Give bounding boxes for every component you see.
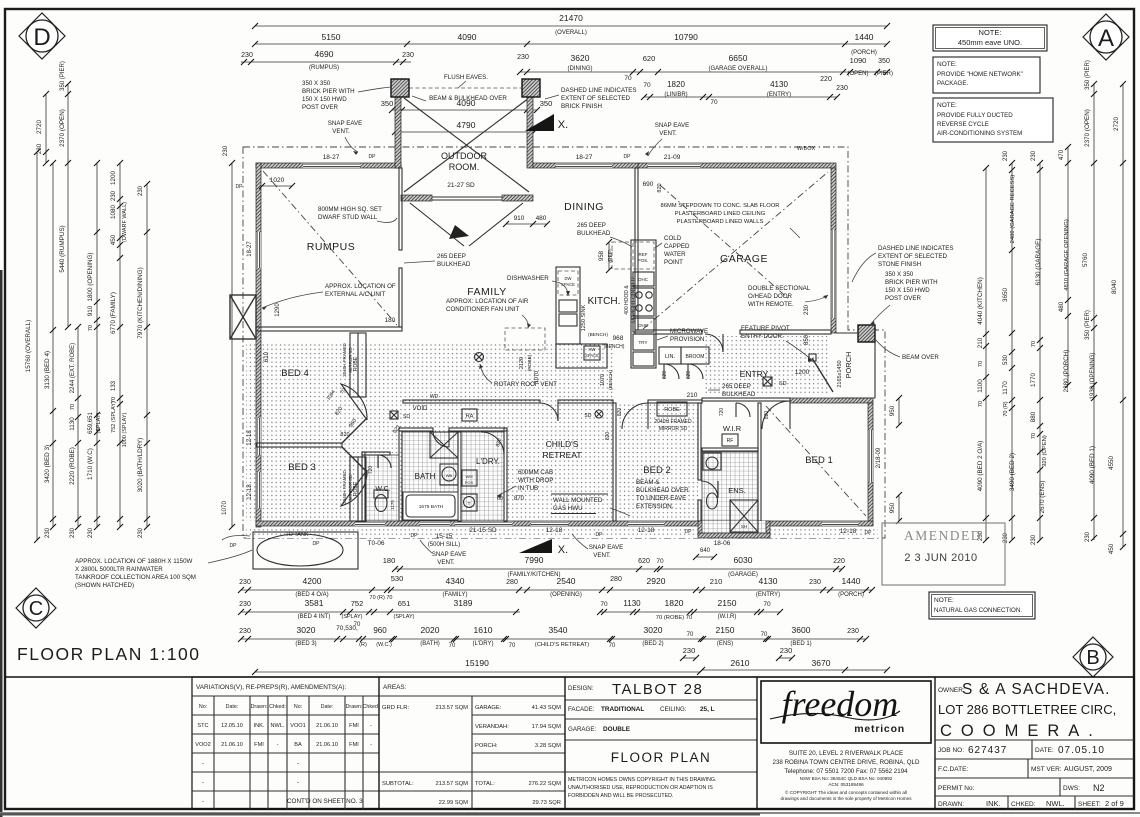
garage personal door to entry [705, 334, 723, 352]
svg-text:70: 70 [978, 401, 984, 407]
kitchen sink [559, 300, 577, 312]
svg-text:70: 70 [609, 643, 616, 649]
svg-text:2 3 JUN 2010: 2 3 JUN 2010 [904, 552, 977, 564]
svg-text:70 (ROBE) 70: 70 (ROBE) 70 [656, 615, 692, 621]
svg-text:870: 870 [514, 496, 525, 502]
svg-text:2280 (PORCH): 2280 (PORCH) [1063, 350, 1070, 393]
svg-text:DP: DP [230, 543, 238, 549]
carpet stipple bedrooms/family band [246, 344, 613, 521]
svg-text:(REF): (REF) [608, 249, 614, 263]
svg-text:620: 620 [643, 54, 656, 63]
svg-text:4040 (KITCHEN): 4040 (KITCHEN) [977, 277, 984, 325]
svg-text:FMI: FMI [349, 723, 359, 729]
svg-text:FEATURE PIVOT: FEATURE PIVOT [741, 325, 790, 332]
right dim col 4040 (KITCHEN) etc [985, 168, 987, 540]
svg-text:4090 (BED 2 O/A): 4090 (BED 2 O/A) [977, 441, 984, 492]
svg-text:(BED 4 INT): (BED 4 INT) [298, 614, 331, 620]
svg-text:SH: SH [741, 524, 747, 529]
svg-text:1200: 1200 [795, 369, 810, 376]
svg-text:910: 910 [514, 215, 525, 222]
svg-text:21.06.10: 21.06.10 [221, 742, 243, 748]
svg-text:LOT 286 BOTTLETREE CIRC,: LOT 286 BOTTLETREE CIRC, [938, 702, 1116, 717]
svg-text:PLASTERBOARD LINED CEILING: PLASTERBOARD LINED CEILING [675, 211, 766, 217]
section marker X bottom [519, 539, 552, 553]
svg-text:VENT.: VENT. [332, 128, 350, 135]
bed2 door [622, 403, 648, 429]
svg-text:ACN: 053189496: ACN: 053189496 [828, 782, 864, 787]
window 18-27 rumpus north [303, 163, 360, 168]
ens/bed1 divider [758, 403, 761, 521]
svg-text:SD: SD [779, 381, 787, 387]
svg-text:VARIATIONS(V), RE-PREPS(R), AM: VARIATIONS(V), RE-PREPS(R), AMENDMENTS(A… [196, 684, 347, 691]
west wall [256, 163, 261, 527]
kitchen bench [556, 267, 580, 344]
svg-text:3581: 3581 [305, 598, 324, 608]
svg-text:SUBTOTAL:: SUBTOTAL: [382, 781, 414, 787]
svg-text:950: 950 [889, 502, 896, 513]
svg-text:UNAUTHORISED USE, REPRODUCTION: UNAUTHORISED USE, REPRODUCTION OR ADAPTI… [568, 785, 713, 791]
svg-text:DP: DP [685, 529, 693, 535]
childs retreat door [540, 403, 558, 421]
svg-text:CONDITIONER FAN UNIT: CONDITIONER FAN UNIT [446, 306, 519, 313]
svg-text:1130: 1130 [623, 599, 641, 608]
svg-text:3.28 SQM: 3.28 SQM [535, 743, 561, 749]
svg-text:70: 70 [1031, 341, 1037, 347]
bath door [433, 431, 449, 447]
svg-text:2150: 2150 [716, 625, 735, 635]
svg-text:W/BOX: W/BOX [797, 146, 816, 152]
outdoor room stacker door 21-27 SD [432, 196, 502, 198]
wir door [736, 403, 750, 417]
svg-text:968: 968 [613, 335, 624, 342]
svg-text:350 (PIER): 350 (PIER) [1085, 60, 1091, 90]
svg-text:(GARAGE): (GARAGE) [728, 572, 758, 578]
svg-text:(DINING): (DINING) [568, 66, 593, 72]
svg-text:41.43 SQM: 41.43 SQM [532, 705, 561, 711]
svg-text:5D: 5D [584, 413, 591, 419]
svg-text:Date:: Date: [321, 704, 334, 710]
svg-text:POS.: POS. [638, 258, 649, 263]
svg-text:15760 (OVERALL): 15760 (OVERALL) [25, 320, 32, 373]
svg-text:(W.C.): (W.C.) [376, 642, 392, 648]
svg-text:RETREAT: RETREAT [542, 450, 581, 460]
window 10-06 bed3 south [355, 521, 385, 526]
top dimension row 2: 5150 / 4090 / 10790 / 1440 [255, 43, 887, 45]
svg-text:2480 (GARAGE RECESS): 2480 (GARAGE RECESS) [1010, 175, 1016, 244]
svg-text:2120: 2120 [519, 357, 525, 369]
right dim col 2720 8040 4550 450 [1122, 84, 1124, 547]
svg-text:REVERSE CYCLE: REVERSE CYCLE [937, 121, 989, 128]
svg-text:BED 4: BED 4 [281, 368, 308, 379]
svg-text:AIR-CONDITIONING SYSTEM: AIR-CONDITIONING SYSTEM [937, 130, 1022, 137]
bed2/ens divider [698, 403, 701, 480]
north wall garage [638, 163, 836, 168]
svg-text:DP: DP [369, 154, 377, 160]
bottom right dims 230 2610 230 3670 [683, 657, 696, 659]
svg-text:18-27: 18-27 [323, 154, 340, 161]
svg-text:GARAGE:: GARAGE: [475, 705, 502, 711]
svg-text:DWARF STUD WALL: DWARF STUD WALL [318, 214, 378, 221]
garage diagonal [643, 172, 828, 329]
svg-text:AUGUST, 2009: AUGUST, 2009 [1064, 766, 1112, 773]
svg-text:TANKROOF COLLECTION AREA 100 S: TANKROOF COLLECTION AREA 100 SQM [75, 574, 196, 581]
eave outline dashed [243, 147, 885, 538]
svg-text:DWS:: DWS: [1063, 785, 1080, 792]
svg-text:12-18: 12-18 [247, 484, 253, 500]
svg-text:820: 820 [605, 432, 611, 441]
svg-text:WALL MOUNTED: WALL MOUNTED [553, 497, 603, 504]
svg-text:X.: X. [558, 119, 568, 131]
corner marker D [19, 13, 65, 59]
svg-text:ROOM.: ROOM. [449, 162, 480, 172]
svg-text:SPACE: SPACE [585, 353, 599, 358]
svg-text:1675 BATH: 1675 BATH [419, 504, 444, 510]
svg-text:230: 230 [45, 527, 51, 538]
svg-text:FAMILY: FAMILY [467, 286, 507, 298]
brick pier NE [522, 79, 540, 97]
svg-text:(LIN/BR): (LIN/BR) [664, 92, 687, 98]
svg-text:3670: 3670 [812, 658, 831, 668]
svg-text:1170: 1170 [1002, 381, 1009, 395]
outdoor room dim 4790 [395, 131, 534, 133]
svg-text:2610: 2610 [731, 658, 750, 668]
svg-text:T: T [468, 501, 471, 506]
svg-text:70: 70 [600, 601, 608, 608]
ens door [701, 481, 718, 498]
outdoor room east wall [527, 96, 533, 168]
svg-text:70 (R) 70: 70 (R) 70 [370, 595, 393, 601]
brick pier NW [391, 79, 409, 97]
note box air conditioning [933, 98, 1053, 142]
svg-text:350: 350 [878, 58, 890, 65]
svg-text:21.06.10: 21.06.10 [316, 742, 338, 748]
svg-text:213.57 SQM: 213.57 SQM [435, 781, 468, 787]
svg-text:1930 (OPENING): 1930 (OPENING) [1090, 353, 1096, 400]
svg-text:620: 620 [638, 558, 650, 565]
left dim col 230 / 1070 near wall [231, 163, 233, 527]
svg-text:SNAP EAVE: SNAP EAVE [432, 551, 467, 558]
outdoor room west wall [395, 96, 401, 168]
svg-text:238 ROBINA TOWN CENTRE DRIVE,: 238 ROBINA TOWN CENTRE DRIVE, ROBINA, QL… [773, 759, 920, 766]
svg-text:VOO2: VOO2 [195, 742, 211, 748]
bed2 robe [657, 402, 687, 416]
svg-text:752 (SPLAY): 752 (SPLAY) [111, 401, 117, 433]
top dimension row 3 left: 230 4690 (RUMPUS) 230 [241, 61, 411, 63]
svg-text:POS: POS [465, 480, 474, 485]
svg-text:X.: X. [558, 544, 568, 556]
svg-text:1070: 1070 [221, 501, 228, 516]
svg-text:1175: 1175 [390, 500, 395, 510]
svg-text:850: 850 [804, 334, 810, 345]
svg-text:BROOM: BROOM [686, 354, 705, 360]
svg-text:(RUMPUS): (RUMPUS) [309, 65, 339, 71]
garage west wall [635, 168, 638, 330]
svg-text:15-15: 15-15 [436, 533, 453, 540]
svg-text:ROTARY ROOF VENT: ROTARY ROOF VENT [494, 381, 557, 388]
svg-text:530: 530 [1003, 354, 1009, 365]
svg-text:BA: BA [294, 742, 302, 748]
svg-text:1070: 1070 [600, 374, 606, 386]
svg-text:800MM HIGH SQ. SET: 800MM HIGH SQ. SET [318, 206, 382, 213]
rainwater tank [253, 532, 358, 569]
svg-text:230: 230 [241, 52, 253, 59]
svg-text:1440: 1440 [855, 32, 874, 42]
svg-text:470: 470 [1058, 149, 1065, 160]
svg-text:4810 (GARAGE OPENING): 4810 (GARAGE OPENING) [1064, 219, 1070, 291]
svg-text:4550: 4550 [1108, 456, 1115, 471]
svg-text:WB: WB [446, 473, 453, 478]
svg-text:958: 958 [599, 250, 605, 261]
svg-text:265 DEEP: 265 DEEP [577, 222, 606, 229]
svg-text:NWL.: NWL. [1046, 799, 1065, 808]
porch outline [836, 332, 858, 334]
svg-text:820: 820 [617, 408, 623, 417]
svg-text:3600: 3600 [792, 625, 811, 635]
svg-text:280: 280 [610, 576, 622, 583]
svg-text:70: 70 [978, 361, 984, 367]
svg-text:70: 70 [1031, 433, 1037, 439]
svg-text:70: 70 [763, 601, 771, 608]
corner marker B [1073, 637, 1113, 677]
svg-text:DOUBLE: DOUBLE [603, 726, 631, 733]
rotary roof vent symbol [475, 353, 484, 362]
ldry door [481, 432, 504, 455]
dwarf stud wall rumpus/family [399, 168, 402, 250]
svg-text:PLASTERBOARD LINED WALLS: PLASTERBOARD LINED WALLS [677, 219, 764, 225]
bottom dim row 230 3581 752 651 3189 / 70 1130 1820 2150 70 [241, 611, 520, 613]
childs/bed2 divider [613, 403, 616, 521]
bed4/bed3 divider with splay [256, 443, 342, 447]
svg-text:DP: DP [236, 184, 244, 190]
svg-text:L'DRY.: L'DRY. [476, 457, 500, 466]
svg-text:BULKHEAD: BULKHEAD [437, 261, 471, 268]
svg-text:DISHWASHER: DISHWASHER [507, 275, 549, 282]
svg-text:B: B [1086, 647, 1099, 669]
svg-text:ROBE: ROBE [353, 356, 359, 371]
svg-text:POINT: POINT [664, 259, 683, 266]
right dim col 230 6130 70 1770 880 920 2670 [1039, 163, 1041, 540]
svg-text:(OPENING): (OPENING) [550, 592, 582, 598]
svg-text:480: 480 [1058, 301, 1065, 312]
svg-text:(GARAGE OVERALL): (GARAGE OVERALL) [708, 66, 767, 72]
svg-text:820: 820 [340, 432, 349, 438]
svg-text:COLD: COLD [664, 235, 682, 242]
rumpus diagonal [263, 171, 397, 325]
svg-text:MIRROR SD: MIRROR SD [659, 426, 688, 432]
wir shelf RF [722, 434, 738, 446]
svg-text:21-09: 21-09 [664, 154, 681, 161]
svg-text:752: 752 [351, 599, 364, 608]
svg-text:1080: 1080 [110, 205, 117, 220]
svg-text:BULKHEAD OVER: BULKHEAD OVER [636, 487, 689, 494]
svg-text:STONE FINISH: STONE FINISH [878, 261, 921, 268]
corner marker A [1083, 14, 1129, 60]
svg-text:NSW BSA No: 38454C QLD BSA: NSW BSA No: 38454C QLD BSA No: 040992 [800, 776, 893, 781]
svg-text:70: 70 [449, 643, 456, 649]
entry north walls [635, 330, 702, 334]
svg-text:230: 230 [138, 527, 144, 538]
window 12-18 bed1 south [822, 521, 858, 526]
svg-text:220: 220 [833, 558, 845, 565]
svg-text:TO UNDER-EAVE: TO UNDER-EAVE [636, 495, 686, 502]
svg-text:(SHOWN HATCHED): (SHOWN HATCHED) [75, 582, 134, 589]
top dimension row: 21470 overall [255, 25, 887, 27]
svg-text:PORCH: PORCH [844, 351, 853, 378]
svg-text:1800 (OPENING): 1800 (OPENING) [87, 253, 94, 302]
svg-text:1000 (SPLAY): 1000 (SPLAY) [122, 412, 128, 447]
svg-text:5760: 5760 [1082, 253, 1089, 268]
bottom dim row 180 7990 (FAMILY/KITCHEN) 620 70 6030 (GARAGE) 220 [395, 568, 842, 570]
svg-text:600MM CAB: 600MM CAB [518, 469, 553, 476]
svg-text:DOUBLE SECTIONAL: DOUBLE SECTIONAL [748, 285, 811, 292]
svg-text:8040: 8040 [1111, 280, 1118, 295]
svg-text:ENTRY: ENTRY [740, 369, 769, 379]
svg-text:APPROX: LOCATION OF AIR: APPROX: LOCATION OF AIR [446, 298, 529, 305]
svg-text:350: 350 [381, 99, 394, 108]
svg-text:18-27: 18-27 [247, 241, 253, 257]
svg-text:230: 230 [1085, 531, 1091, 542]
svg-text:6030: 6030 [734, 555, 753, 565]
ldry east wall [504, 428, 507, 521]
svg-text:(L'DRY): (L'DRY) [472, 641, 493, 647]
svg-text:230: 230 [836, 85, 848, 92]
svg-text:FLOOR PLAN: FLOOR PLAN [611, 750, 712, 765]
flush eave line outdoor room [396, 87, 536, 89]
svg-text:DP: DP [596, 532, 604, 538]
svg-text:(BED 2): (BED 2) [642, 641, 663, 647]
svg-text:880: 880 [1030, 411, 1037, 422]
north wall dining [533, 163, 638, 168]
svg-text:4090 (BED 1): 4090 (BED 1) [1089, 446, 1096, 484]
svg-text:70: 70 [70, 404, 76, 410]
svg-text:(CHILD'S RETREAT): (CHILD'S RETREAT) [535, 642, 590, 648]
svg-text:WD: WD [430, 394, 439, 400]
svg-text:EXTENSION.: EXTENSION. [636, 503, 674, 510]
note box home network [933, 57, 1040, 93]
svg-text:400 HOOD &: 400 HOOD & [624, 285, 630, 315]
svg-text:210: 210 [977, 337, 984, 348]
svg-text:O/HEAD DOOR: O/HEAD DOOR [748, 293, 793, 300]
left dim col 230 7970 3020 [146, 184, 148, 527]
svg-text:2920: 2920 [647, 576, 666, 586]
svg-text:230: 230 [683, 646, 696, 655]
svg-text:VENT.: VENT. [437, 559, 455, 566]
svg-text:DP: DP [624, 154, 632, 160]
svg-text:620: 620 [686, 371, 692, 380]
svg-text:BED 1: BED 1 [805, 455, 832, 466]
svg-text:DRAWN:: DRAWN: [938, 801, 964, 808]
svg-text:950: 950 [889, 405, 896, 416]
bedroom band wall y=400 [403, 400, 540, 403]
svg-text:21-27 SD: 21-27 SD [447, 182, 475, 189]
svg-text:DATE:: DATE: [1035, 747, 1054, 754]
svg-text:DW: DW [565, 276, 572, 281]
svg-text:(PIER): (PIER) [875, 71, 893, 77]
svg-text:230: 230 [809, 579, 821, 586]
svg-text:213.57 SQM: 213.57 SQM [435, 705, 468, 711]
svg-text:12-18: 12-18 [546, 527, 563, 534]
svg-text:-: - [202, 799, 204, 805]
dim 910 480 dining [506, 223, 547, 225]
svg-text:480: 480 [536, 215, 547, 222]
svg-text:2220 (ROBE): 2220 (ROBE) [69, 447, 76, 485]
south wall [256, 521, 873, 526]
svg-text:WATER: WATER [664, 251, 686, 258]
svg-text:IN TUB: IN TUB [518, 485, 538, 492]
svg-text:230: 230 [239, 601, 251, 608]
svg-text:SUITE 20, LEVEL 2 RIVERWALK PL: SUITE 20, LEVEL 2 RIVERWALK PLACE [789, 750, 903, 757]
sliding door 21-15 SD south [455, 521, 512, 526]
svg-text:GRD FLR:: GRD FLR: [382, 705, 409, 711]
svg-text:SPACE: SPACE [561, 282, 575, 287]
svg-text:2/18-09: 2/18-09 [876, 447, 882, 468]
svg-text:(PORCH): (PORCH) [838, 592, 864, 598]
svg-text:SNAP EAVE: SNAP EAVE [589, 544, 624, 551]
svg-text:(DWARF WALL): (DWARF WALL) [122, 202, 128, 242]
carpet stipple bed2 [617, 404, 698, 521]
svg-text:PROVIDE FULLY DUCTED: PROVIDE FULLY DUCTED [937, 112, 1013, 119]
svg-text:AREAS:: AREAS: [383, 684, 407, 691]
svg-text:BRICK PIER WITH: BRICK PIER WITH [885, 279, 938, 286]
svg-text:VENT.: VENT. [659, 130, 677, 137]
svg-text:230: 230 [1003, 150, 1009, 161]
tiled ensuite [702, 452, 758, 521]
svg-text:NOTE:: NOTE: [979, 28, 1002, 37]
laundry tub and wm [462, 470, 477, 486]
svg-text:BRICK PIER WITH: BRICK PIER WITH [302, 88, 355, 95]
window 18-27 rumpus west [256, 232, 261, 268]
bottom dim row 230 3020 70 530 960 2020 1610 3540 3020 2150 3600 230 [241, 638, 866, 640]
svg-text:DP: DP [865, 530, 873, 536]
owner section [935, 677, 1134, 809]
bottom dim row 230 4200 530 4340 280 2540 280 2920 210 4130 230 1440 [241, 589, 872, 591]
svg-text:820: 820 [657, 183, 663, 192]
wir/ens divider [702, 448, 758, 451]
svg-text:AMENDED: AMENDED [904, 528, 982, 543]
svg-text:CHILD'S: CHILD'S [546, 439, 579, 449]
svg-text:FLUSH EAVES.: FLUSH EAVES. [444, 74, 488, 81]
svg-text:(ENTRY): (ENTRY) [767, 92, 791, 98]
svg-text:MIRROR 5D: MIRROR 5D [348, 347, 353, 373]
svg-text:-: - [202, 761, 204, 767]
svg-text:FMI: FMI [254, 742, 264, 748]
feature pivot entry door [812, 358, 833, 392]
svg-text:230: 230 [1003, 532, 1009, 543]
svg-text:-: - [277, 742, 279, 748]
svg-text:2040H FRAMED: 2040H FRAMED [342, 469, 347, 503]
left dim col 2720/230 [45, 94, 47, 163]
svg-text:(OPEN): (OPEN) [848, 71, 869, 77]
svg-text:(OVERALL): (OVERALL) [555, 30, 587, 36]
svg-text:S & A SACHDEVA.: S & A SACHDEVA. [962, 681, 1111, 698]
svg-text:2040H FRAMED: 2040H FRAMED [654, 419, 692, 425]
svg-text:910: 910 [87, 305, 94, 316]
svg-text:(BENCH): (BENCH) [608, 370, 614, 390]
svg-text:drawings and documents is the: drawings and documents is the sole prope… [781, 796, 913, 801]
svg-text:230: 230 [780, 646, 793, 655]
svg-text:1090: 1090 [850, 56, 867, 65]
svg-text:(SPLAY): (SPLAY) [394, 614, 415, 620]
svg-text:A: A [1098, 25, 1114, 52]
svg-text:(ENTRY): (ENTRY) [756, 592, 780, 598]
design section [565, 677, 757, 809]
bed1 door [762, 401, 790, 429]
svg-text:150 X 150 HWD: 150 X 150 HWD [302, 96, 347, 103]
kitchen island bench [556, 344, 607, 368]
svg-text:(SPLAY): (SPLAY) [96, 412, 102, 433]
svg-text:-: - [297, 780, 299, 786]
svg-text:X 2800L 5000LTR RAINWATER: X 2800L 5000LTR RAINWATER [75, 566, 163, 573]
